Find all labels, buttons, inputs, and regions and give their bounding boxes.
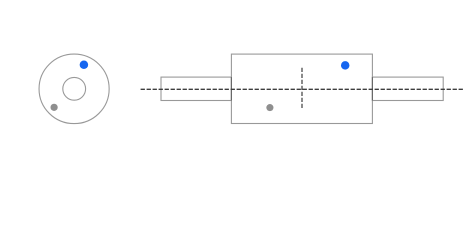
- body rectangle (side view): [231, 54, 372, 123]
- blue point (front view): [80, 61, 89, 70]
- gray point (side view): [266, 104, 273, 111]
- overlapped edge: shaft/body junction left: [230, 77, 232, 100]
- vertical dashed centerline: [301, 68, 303, 109]
- inner bore circle: [63, 77, 86, 100]
- gray point (front view): [51, 104, 58, 111]
- overlapped edge: shaft/body junction right: [371, 77, 373, 100]
- blue point (side view): [341, 61, 350, 70]
- horizontal dashed centerline: [141, 88, 463, 90]
- right shaft rectangle (side view): [372, 77, 443, 100]
- outer circle (front view of part): [39, 54, 109, 124]
- left shaft rectangle (side view): [161, 77, 231, 100]
